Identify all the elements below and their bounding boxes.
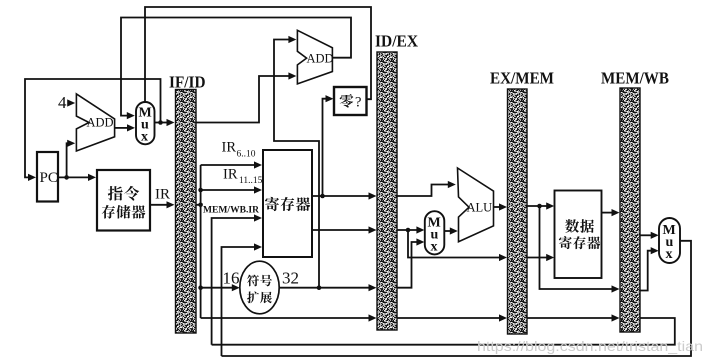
mux MUX1 (next PC select) bbox=[136, 102, 155, 145]
wire B operand bypass down to EX/MEM latch (store data) bbox=[408, 230, 507, 261]
ID/EX stage label bbox=[375, 32, 419, 51]
IR 11..15 label bbox=[223, 167, 263, 187]
svg-text:IF/ID: IF/ID bbox=[169, 73, 206, 92]
zero test box 零? bbox=[334, 87, 367, 115]
svg-text:IR: IR bbox=[222, 140, 237, 156]
MEM/WB.IR label bbox=[203, 205, 260, 215]
wire write-register number (MEM/WB.IR) into register file bbox=[212, 214, 262, 344]
svg-text:PC: PC bbox=[40, 170, 58, 186]
wire 16-bit immediate into sign extend bbox=[201, 284, 240, 291]
data memory box 数据寄存器 bbox=[555, 191, 602, 279]
IR 6..10 label bbox=[222, 140, 256, 160]
wire mux MUX1 output into IF/ID latch bbox=[155, 119, 175, 126]
mux MUX3 (write-back select) bbox=[659, 218, 680, 263]
IR field distribution vertical wire right of IF/ID bbox=[196, 165, 203, 318]
IR label on instruction wire bbox=[155, 187, 170, 203]
adder ADD1 (PC+4) bbox=[76, 94, 114, 151]
svg-text:EX/MEM: EX/MEM bbox=[490, 69, 554, 88]
wire ALU result wrap below data memory into MEM/WB latch bbox=[540, 206, 620, 293]
wire register A output into ID/EX latch bbox=[312, 192, 377, 199]
svg-text:ADD: ADD bbox=[307, 52, 334, 66]
wire IR11..15 into register file bbox=[201, 186, 262, 193]
wire IR pass-down into ID/EX latch bbox=[201, 314, 377, 321]
register file box 寄存器 bbox=[263, 150, 312, 257]
PC register box bbox=[37, 152, 58, 202]
wire load/ALU result from MEM/WB to mux MUX3 bbox=[640, 232, 659, 239]
wire sign-extended immediate up to adder ADD2 upper input bbox=[274, 36, 319, 288]
svg-text:MEM/WB: MEM/WB bbox=[601, 69, 669, 88]
wire ADD1 output to mux MUX1 bbox=[115, 124, 135, 131]
svg-text:6..10: 6..10 bbox=[237, 150, 256, 160]
wire store data from EX/MEM into data memory bbox=[527, 254, 554, 261]
PC feedback wire from mux output up-over-down into PC bbox=[25, 79, 161, 181]
ALU trapezoid bbox=[458, 168, 494, 242]
EX/MEM stage label bbox=[490, 69, 554, 88]
wire mux MUX2 output to ALU lower input bbox=[444, 227, 458, 234]
wire NPC from IF/ID up to adder ADD2 lower input bbox=[196, 72, 296, 122]
wire write-back data into register file bbox=[222, 243, 263, 356]
svg-text:ALU: ALU bbox=[467, 201, 493, 215]
constant 4 label bbox=[58, 93, 67, 112]
wire immediate from ID/EX to mux MUX2 lower input bbox=[397, 238, 424, 287]
wire branch target: adder ADD2 output wrapping left to mux MUX1 input bbox=[121, 18, 351, 120]
svg-text:IR: IR bbox=[155, 187, 170, 203]
svg-text:x: x bbox=[141, 130, 148, 145]
wire instruction memory to IF/ID latch bbox=[150, 201, 175, 208]
svg-text:4: 4 bbox=[58, 93, 67, 112]
wire IR pass from ID/EX into EX/MEM latch bbox=[397, 314, 507, 321]
watermark bbox=[477, 338, 703, 354]
EX/MEM pipeline latch bar bbox=[508, 89, 528, 334]
svg-text:?: ? bbox=[355, 95, 361, 111]
wire sign-extended 32-bit immediate into ID/EX latch bbox=[279, 284, 376, 291]
wire IR pass from EX/MEM into MEM/WB latch bbox=[527, 314, 620, 321]
wire IR6..10 into register file bbox=[201, 161, 262, 168]
MEM/WB pipeline latch bar bbox=[620, 88, 640, 332]
svg-text:MEM/WB.IR: MEM/WB.IR bbox=[203, 205, 260, 215]
wire ALU output into EX/MEM latch bbox=[494, 203, 508, 210]
wire mux MUX3 output wrap-around: down and left to register file write data bbox=[222, 241, 692, 356]
IF/ID stage label bbox=[169, 73, 206, 92]
sign extend ellipse 符号扩展 bbox=[240, 261, 279, 314]
svg-text:https://blog.csdn.net/tristan_: https://blog.csdn.net/tristan_tian bbox=[477, 338, 703, 354]
svg-text:32: 32 bbox=[282, 269, 299, 288]
svg-text:IR: IR bbox=[223, 167, 238, 183]
IF/ID pipeline latch bar bbox=[176, 90, 197, 334]
MEM/WB stage label bbox=[601, 69, 669, 88]
svg-text:11..15: 11..15 bbox=[239, 176, 263, 186]
wire register A output up into 零? test box bbox=[320, 95, 333, 198]
adder ADD2 (branch target) bbox=[297, 30, 333, 84]
wire MEM/WB.IR wrap-around: right edge down and left to register write port bbox=[212, 318, 675, 345]
svg-text:x: x bbox=[666, 247, 673, 262]
instruction memory box 指令存储器 bbox=[97, 170, 150, 231]
wire ALU result from EX/MEM to data memory address bbox=[527, 202, 554, 209]
wire zero-flag: 零? box output wrapping along top into mux MUX1 top bbox=[145, 7, 371, 102]
mux MUX2 (ALU source B select) bbox=[425, 211, 445, 254]
wire register B output into ID/EX latch bbox=[312, 226, 377, 233]
wire PC up to adder ADD1 lower input bbox=[67, 140, 76, 178]
wire ALU result from MEM/WB rising to mux MUX3 lower input bbox=[640, 247, 659, 290]
wire 4 into adder ADD1 upper input bbox=[67, 99, 75, 106]
wire data memory output into MEM/WB latch bbox=[602, 209, 620, 216]
svg-text:ADD: ADD bbox=[87, 116, 114, 130]
wire B operand from ID/EX to mux MUX2 bbox=[397, 226, 424, 233]
32 label on sign-extended wire bbox=[282, 269, 299, 288]
ID/EX pipeline latch bar bbox=[377, 52, 397, 330]
svg-text:x: x bbox=[431, 240, 438, 255]
wire PC to instruction memory bbox=[58, 174, 96, 181]
svg-text:16: 16 bbox=[223, 269, 240, 288]
svg-text:ID/EX: ID/EX bbox=[375, 32, 419, 51]
16 label on immediate wire bbox=[223, 269, 240, 288]
wire A operand from ID/EX to ALU upper input bbox=[397, 181, 456, 196]
